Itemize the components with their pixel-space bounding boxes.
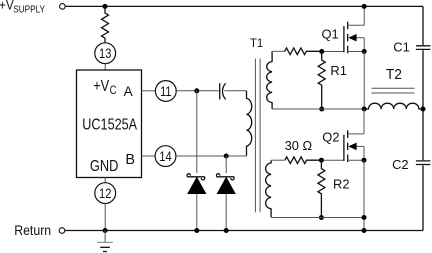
ground xyxy=(97,231,113,252)
wire Q1 source down xyxy=(363,52,365,110)
wire right rail lower xyxy=(422,165,424,230)
node +V_SUPPLY label xyxy=(0,0,45,15)
node R2 bottom junction xyxy=(319,215,324,220)
svg-text:Q2: Q2 xyxy=(322,129,339,144)
wire top rail xyxy=(65,5,423,7)
node Q1 gate junction xyxy=(319,49,324,54)
wire D2 top xyxy=(225,156,227,173)
node Q2 source xyxy=(362,158,367,163)
svg-text:Return: Return xyxy=(14,222,51,238)
svg-text:C: C xyxy=(110,84,117,97)
svg-text:A: A xyxy=(124,84,133,99)
capacitor coupling xyxy=(220,83,226,99)
svg-text:+V: +V xyxy=(93,78,109,96)
pin 13 xyxy=(95,43,116,64)
wire pin13 to box xyxy=(104,64,106,71)
pin 14 xyxy=(155,146,176,167)
node pin14 junction xyxy=(224,154,229,159)
svg-text:C2: C2 xyxy=(392,157,408,172)
transformer T2 core xyxy=(372,88,415,93)
resistor R1 xyxy=(318,52,347,110)
transformer T1 secondary 1 xyxy=(267,51,272,109)
svg-text:R2: R2 xyxy=(333,176,350,191)
resistor bias (top) xyxy=(102,6,109,43)
wire pin A stub xyxy=(142,90,156,92)
svg-text:13: 13 xyxy=(99,46,111,61)
resistor series gate 1 xyxy=(285,48,322,55)
svg-text:T1: T1 xyxy=(250,37,263,50)
transformer T1 core xyxy=(255,59,260,213)
diode D2 xyxy=(217,174,236,231)
terminal Return xyxy=(59,228,65,234)
svg-text:SUPPLY: SUPPLY xyxy=(13,4,45,15)
svg-text:30 Ω: 30 Ω xyxy=(285,138,313,153)
transformer T1 secondary 2 xyxy=(266,160,271,217)
svg-text:UC1525A: UC1525A xyxy=(82,116,137,134)
wire bottom of cell 2 xyxy=(271,217,364,219)
wire Q2 source down xyxy=(363,160,365,230)
transistor Q1 xyxy=(322,6,365,53)
wire right rail upper xyxy=(422,6,424,45)
node Q2 gate junction xyxy=(319,158,324,163)
transistor Q2 xyxy=(322,109,364,162)
node Q1 source xyxy=(362,49,367,54)
wire right rail middle xyxy=(422,50,424,160)
wire cap to T1 primary xyxy=(224,90,246,92)
svg-text:R1: R1 xyxy=(330,63,347,78)
pin 11 xyxy=(155,81,176,102)
svg-text:Q1: Q1 xyxy=(322,26,339,41)
pin 12 xyxy=(95,183,116,204)
wire gate lead Q1 xyxy=(322,51,344,53)
svg-text:+V: +V xyxy=(0,0,14,13)
diode D1 xyxy=(187,174,206,231)
wire pin11 to cap xyxy=(176,90,219,92)
wire gate lead Q2 xyxy=(321,159,343,161)
transformer T2 winding xyxy=(364,103,423,109)
capacitor C1 xyxy=(393,39,430,54)
svg-text:GND: GND xyxy=(90,158,118,176)
svg-text:11: 11 xyxy=(160,84,172,99)
node ground junction xyxy=(103,228,108,233)
svg-text:B: B xyxy=(125,152,135,168)
resistor 30 ohm xyxy=(285,138,322,164)
transformer T1 primary winding xyxy=(247,91,252,156)
svg-text:C1: C1 xyxy=(393,39,409,54)
wire pin14 to T1 primary bottom xyxy=(176,155,247,157)
wire bottom of cell 1 xyxy=(272,108,364,110)
svg-text:12: 12 xyxy=(99,186,111,201)
node pin11 junction xyxy=(194,88,199,93)
wire pin B stub xyxy=(142,155,156,157)
wire gate row 2: T1 sec2 top to Q2 gate xyxy=(271,159,285,161)
wire D1 top xyxy=(196,91,198,173)
terminal +V_SUPPLY xyxy=(60,4,66,10)
node R1 bottom junction xyxy=(319,107,324,112)
node D1 bottom xyxy=(194,228,199,233)
node top rail / Q1 drain xyxy=(362,4,367,9)
node Q2 source rail end xyxy=(362,215,367,220)
op-amp U1 UC1525A box xyxy=(77,70,142,178)
junction dot top rail / bias resistor xyxy=(103,4,108,9)
node bottom rail / Q2 xyxy=(362,228,367,233)
svg-text:14: 14 xyxy=(159,149,171,164)
capacitor C2 xyxy=(392,157,430,172)
wire pin12 stub xyxy=(104,178,106,184)
node source/T2 junction xyxy=(362,107,367,112)
wire gate row 1: T1 sec1 top to Q1 gate xyxy=(272,50,285,52)
resistor R2 xyxy=(318,160,350,217)
wire pin12 down xyxy=(104,203,106,230)
svg-text:T2: T2 xyxy=(386,66,402,82)
wire bottom rail xyxy=(65,230,423,232)
node T2 / right rail xyxy=(421,107,426,112)
node D2 bottom xyxy=(224,228,229,233)
